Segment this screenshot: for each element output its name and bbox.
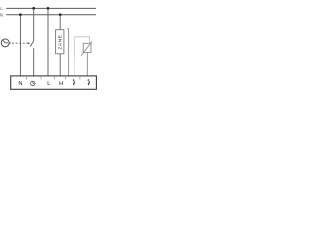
svg-text:H: H bbox=[59, 81, 63, 87]
wire L bus bbox=[6, 7, 96, 9]
dashed mechanical link bbox=[12, 42, 28, 44]
wire clock stub bbox=[9, 42, 11, 44]
wire load box to terminal H bbox=[59, 54, 61, 76]
junction dot on L at x=48.5 bbox=[47, 7, 50, 10]
pilot wire symbol 2 bbox=[88, 79, 90, 84]
junction dot on N at x=20.4 bbox=[19, 13, 22, 16]
svg-text:ZANE: ZANE bbox=[57, 35, 63, 50]
wire N bus bbox=[6, 14, 96, 16]
arrow head of link bbox=[28, 42, 30, 44]
actuator diagonal bbox=[81, 41, 92, 55]
load box ZANE bbox=[56, 30, 64, 54]
svg-text:L: L bbox=[0, 6, 3, 11]
wire pilot terminal 1 riser bbox=[68, 29, 70, 76]
actuator square bbox=[83, 43, 91, 52]
device box bbox=[11, 76, 97, 89]
terminal ticks bbox=[25, 76, 27, 79]
wire switch to clock terminal bbox=[33, 48, 35, 76]
svg-text:L: L bbox=[47, 81, 50, 87]
switch lever (timer contact) bbox=[30, 41, 34, 47]
pilot wire symbol 1 bbox=[73, 79, 75, 84]
junction dot on L at x=33.7 bbox=[32, 7, 35, 10]
wire L drop to terminal L bbox=[47, 8, 49, 76]
wire actuator to pilot terminal 2 bbox=[86, 53, 88, 76]
timer clock symbol bbox=[1, 39, 9, 47]
svg-text:N: N bbox=[18, 81, 22, 87]
wire L drop upper (to switch) bbox=[33, 8, 35, 41]
wire N drop to terminal N bbox=[19, 15, 21, 76]
wire N drop to load box bbox=[59, 15, 61, 30]
faint external link top bbox=[75, 36, 90, 38]
svg-text:N: N bbox=[0, 12, 3, 17]
terminal clock symbol bbox=[31, 81, 35, 85]
junction dot on N at x=60.2 bbox=[59, 13, 62, 16]
